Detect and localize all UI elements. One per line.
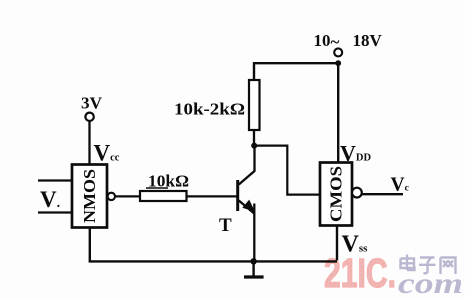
junction dot collector node [251,143,257,149]
wire collector node to CMOS input [254,146,320,195]
watermark 21IC.com 电子网 [324,250,463,300]
wire CMOS Vss pin down [336,226,338,261]
supply terminal circle [334,48,342,56]
svg-text:10k-2kΩ: 10k-2kΩ [174,100,245,119]
wire 3V to NMOS Vcc pin [88,121,90,165]
CMOS block U2 [320,163,352,226]
svg-text:com: com [398,267,463,300]
wire R2 bottom to collector node [253,130,255,146]
wire CMOS output to Vc [362,193,403,195]
resistor R2 10k-2kΩ vertical [249,80,260,130]
base bar [236,180,239,211]
NMOS block U1 [72,165,107,228]
watermark char 网 [441,258,456,275]
svg-text:NMOS: NMOS [80,169,99,223]
input wire lower [38,211,72,213]
svg-text:21IC.: 21IC. [324,250,396,296]
wire NMOS bottom to ground rail [90,228,337,262]
collector lead [239,147,255,185]
NMOS output bubble [108,193,115,200]
wire R2 top to supply rail [254,63,338,80]
svg-text:CMOS: CMOS [327,166,346,222]
svg-text:3V: 3V [81,94,103,113]
CMOS output bubble [352,188,362,198]
wire supply rail down to CMOS VDD [337,63,339,162]
watermark char 电 [401,255,415,271]
transistor T [238,147,255,261]
resistor R1 10kΩ [140,191,187,201]
emitter lead [239,201,255,214]
emitter arrow [242,200,255,212]
power terminal 3V circle [85,113,93,121]
junction dot supply [335,60,341,66]
watermark char 子 [419,258,436,274]
svg-text:T: T [219,215,232,236]
emitter wire down [253,204,255,262]
wire R1 to transistor base [187,195,237,197]
underline of 10kΩ label [146,187,168,189]
junction dot ground node [250,258,256,264]
ground [244,261,264,277]
input wire upper [38,179,72,181]
wire NMOS output to R1 [115,195,140,197]
